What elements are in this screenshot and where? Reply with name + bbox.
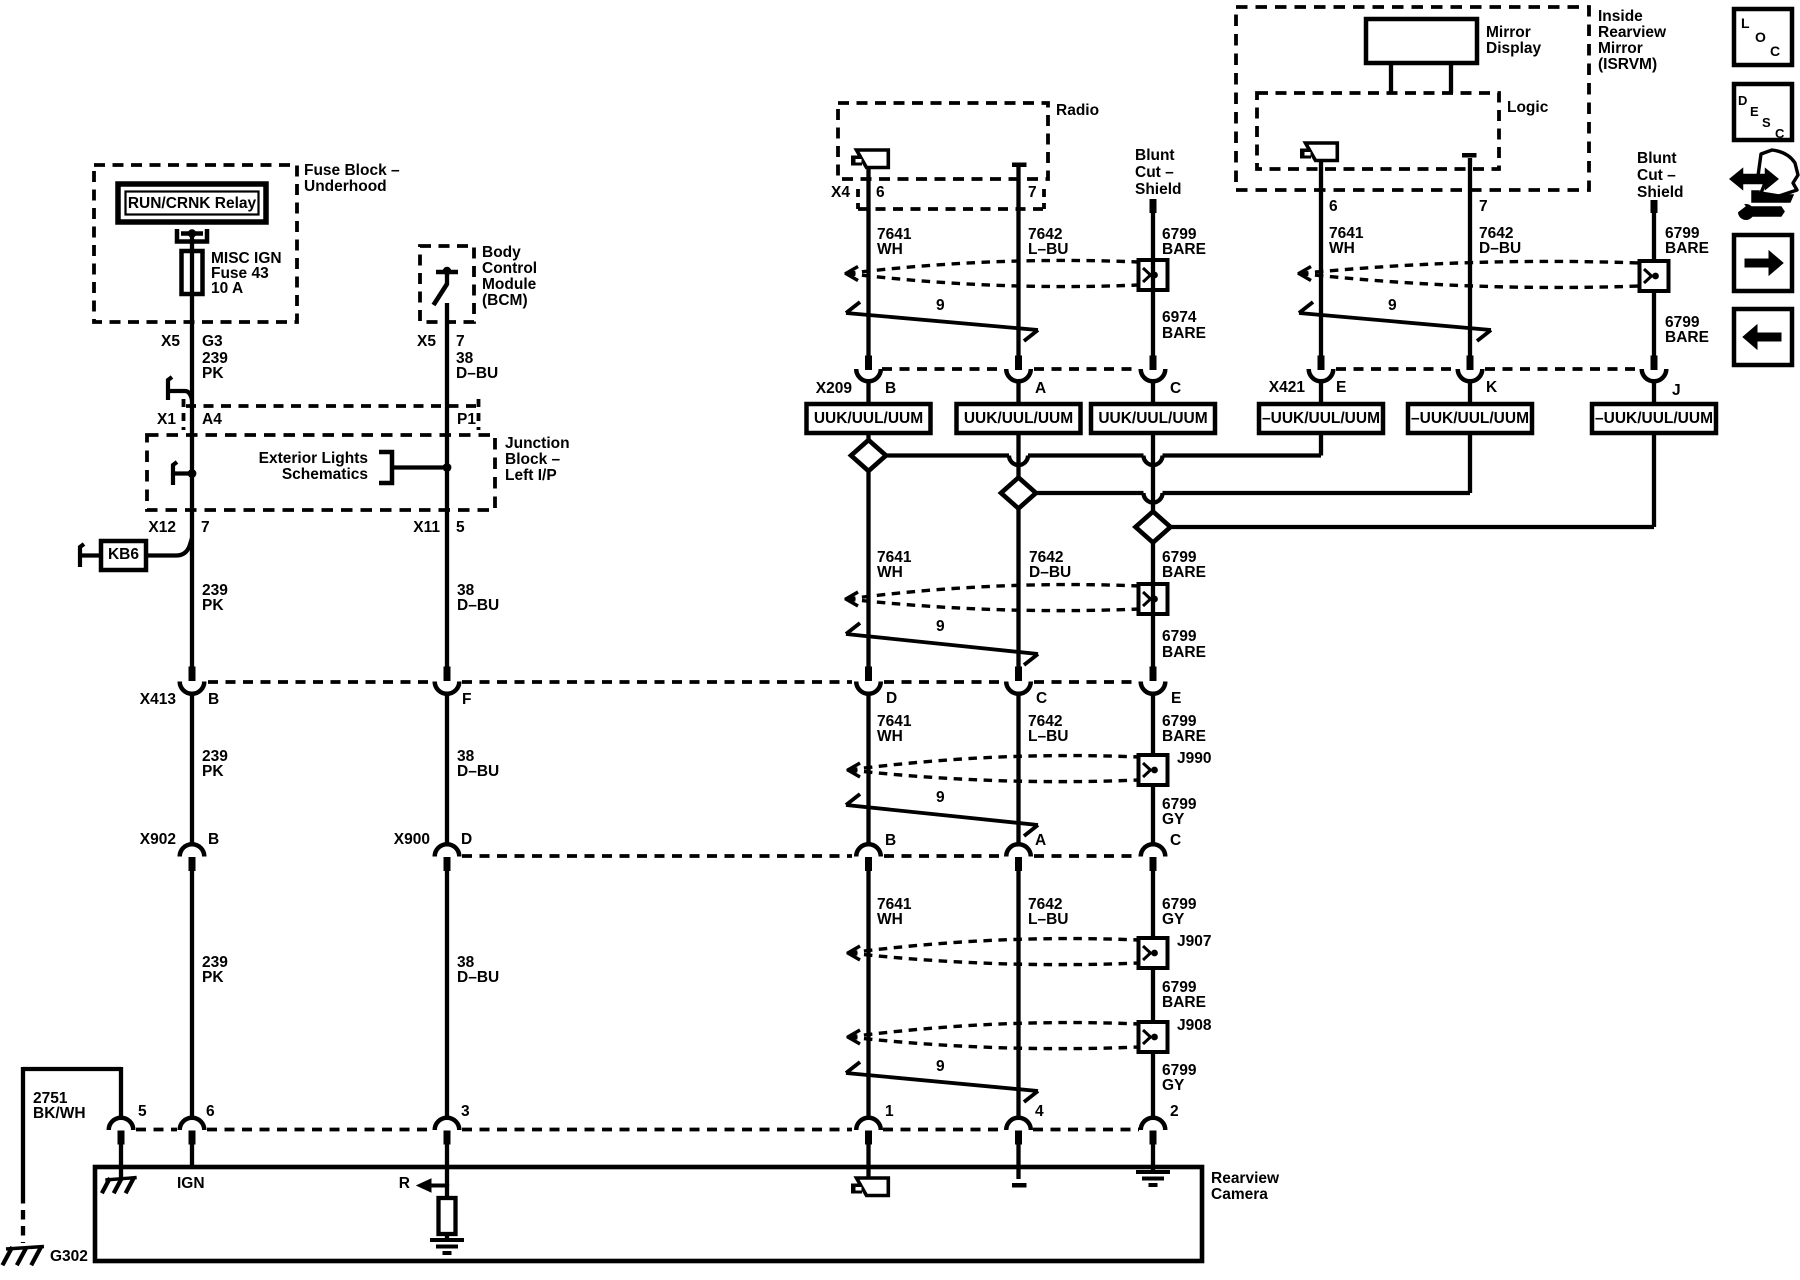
svg-text:GY: GY <box>1162 911 1185 928</box>
camera box cam icon <box>857 1178 889 1196</box>
svg-text:L–BU: L–BU <box>1028 728 1068 745</box>
KB6 arm right to line <box>146 538 192 556</box>
UUK box A <box>1016 381 1020 405</box>
svg-text:B: B <box>208 691 219 708</box>
radio dashed box <box>838 103 1048 179</box>
shield ellipse J908 <box>849 1023 1140 1037</box>
svg-text:C: C <box>1770 43 1780 59</box>
shield coupling J907 <box>1139 938 1168 968</box>
shield ellipse J907 <box>849 939 1140 953</box>
svg-text:7: 7 <box>201 519 210 536</box>
svg-text:D: D <box>886 690 897 707</box>
svg-text:L–BU: L–BU <box>1028 241 1068 258</box>
wire pin5 down <box>119 1067 123 1118</box>
camera connector dashed row <box>136 1128 177 1132</box>
svg-text:J908: J908 <box>1177 1017 1212 1034</box>
exterior lights bracket <box>379 452 392 483</box>
twisted pair 9 s3 <box>846 805 1038 825</box>
UUK box K <box>1468 381 1472 405</box>
relay pin bracket <box>177 229 207 242</box>
svg-text:4: 4 <box>1035 1103 1044 1120</box>
connector rowC B <box>856 844 881 856</box>
svg-text:X900: X900 <box>394 831 430 848</box>
svg-text:A4: A4 <box>202 411 222 428</box>
svg-text:G302: G302 <box>50 1248 88 1265</box>
svg-text:UUK/UUL/UUM: UUK/UUL/UUM <box>814 410 923 427</box>
wire pin6 to camera box <box>190 1144 194 1168</box>
wire D rowC-D <box>1016 871 1020 1118</box>
svg-text:9: 9 <box>1388 297 1397 314</box>
connector rowB E <box>1150 667 1157 682</box>
svg-text:WH: WH <box>877 241 903 258</box>
svg-text:KB6: KB6 <box>108 546 139 563</box>
wire 2751 vertical solid <box>21 1067 25 1194</box>
svg-text:Mirror: Mirror <box>1598 40 1643 57</box>
svg-text:5: 5 <box>456 519 465 536</box>
svg-text:E: E <box>1171 690 1181 707</box>
svg-text:–UUK/UUL/UUM: –UUK/UUL/UUM <box>1262 410 1380 427</box>
svg-text:E: E <box>1336 379 1346 396</box>
connector rowB D <box>865 667 872 682</box>
svg-text:6: 6 <box>1329 198 1338 215</box>
svg-text:D–BU: D–BU <box>457 969 499 986</box>
wire X902 to pin6 <box>190 871 194 1118</box>
svg-text:R: R <box>399 1175 410 1192</box>
svg-text:Left I/P: Left I/P <box>505 467 557 484</box>
horizontal diamond3 to J wire <box>1171 525 1655 529</box>
svg-text:D–BU: D–BU <box>1029 564 1071 581</box>
svg-text:WH: WH <box>877 728 903 745</box>
UUK box C <box>1151 381 1155 405</box>
splice diamond1 <box>851 440 886 471</box>
connector rowC C <box>1141 844 1166 856</box>
connector X421-E <box>1318 356 1325 371</box>
connector camera pin6 <box>180 1118 205 1130</box>
svg-text:K: K <box>1486 379 1498 396</box>
shield coupling S2 <box>1139 584 1168 614</box>
svg-text:Fuse Block –: Fuse Block – <box>304 162 400 179</box>
svg-text:Control: Control <box>482 260 537 277</box>
connector X421-K <box>1467 356 1474 371</box>
KB6 arm left <box>82 553 101 557</box>
svg-text:2: 2 <box>1170 1103 1179 1120</box>
wire R down <box>445 1184 449 1198</box>
svg-text:Blunt: Blunt <box>1637 150 1677 167</box>
ground IEC at resistor <box>430 1238 464 1242</box>
junction block dashed box <box>147 435 495 510</box>
svg-text:BARE: BARE <box>1162 241 1206 258</box>
connector X421-J <box>1651 356 1658 371</box>
twisted pair 9 s1 <box>846 313 1038 330</box>
wire 2751 horizontal <box>23 1067 121 1071</box>
svg-text:D–BU: D–BU <box>457 763 499 780</box>
svg-text:B: B <box>885 832 896 849</box>
wire shield right <box>1652 212 1656 356</box>
wire logic pin6 down <box>1319 162 1323 356</box>
svg-text:Blunt: Blunt <box>1135 147 1175 164</box>
wire pin3 to camera box <box>445 1144 449 1186</box>
svg-text:BK/WH: BK/WH <box>33 1105 86 1122</box>
wire diamond3 down <box>1151 543 1155 667</box>
connector X1-P1 dashed row <box>186 404 477 408</box>
svg-text:6: 6 <box>206 1103 215 1120</box>
horizontal diamond2 to K wire <box>1036 491 1144 495</box>
wire junction to X413 <box>190 473 194 667</box>
svg-text:X11: X11 <box>413 519 440 536</box>
connector X902-B <box>180 844 205 856</box>
hook branch in junction block <box>173 462 177 485</box>
legend DESC box <box>1734 84 1792 140</box>
svg-text:D: D <box>1738 93 1747 108</box>
svg-text:RUN/CRNK Relay: RUN/CRNK Relay <box>128 195 257 212</box>
twisted pair 9 s4 <box>846 1073 1038 1091</box>
wire C rowB-C <box>866 694 870 846</box>
svg-text:X1: X1 <box>157 411 176 428</box>
svg-text:7: 7 <box>1479 198 1488 215</box>
shield ellipse s1 <box>847 260 1139 273</box>
connector camera pin3 <box>435 1118 460 1130</box>
svg-text:PK: PK <box>202 763 224 780</box>
wire shield s1 <box>1151 212 1155 356</box>
svg-text:–UUK/UUL/UUM: –UUK/UUL/UUM <box>1411 410 1529 427</box>
svg-text:X5: X5 <box>417 333 436 350</box>
svg-text:Exterior Lights: Exterior Lights <box>259 450 368 467</box>
svg-text:Mirror: Mirror <box>1486 24 1531 41</box>
shield coupling J990 <box>1139 755 1168 785</box>
svg-text:9: 9 <box>936 618 945 635</box>
svg-text:6799: 6799 <box>1162 628 1197 645</box>
fuse F43 body <box>182 251 203 294</box>
svg-text:X4: X4 <box>831 184 850 201</box>
svg-text:D–BU: D–BU <box>456 365 498 382</box>
svg-text:X421: X421 <box>1269 379 1306 396</box>
svg-text:L: L <box>1741 15 1750 31</box>
svg-text:Rearview: Rearview <box>1598 24 1667 41</box>
wire diamond1 to X413D <box>866 471 870 667</box>
shield coupling S1 <box>1139 260 1168 290</box>
svg-text:BARE: BARE <box>1162 994 1206 1011</box>
shield stub top right <box>1651 200 1658 213</box>
connector X1 tick <box>182 399 186 430</box>
connector rowC A <box>1006 844 1031 856</box>
wire pin4 to box <box>1016 1144 1020 1179</box>
wire E rowB to J990 <box>1151 694 1155 846</box>
svg-text:GY: GY <box>1162 1077 1185 1094</box>
UUK box B <box>866 381 870 405</box>
logic minus <box>1462 153 1477 158</box>
connector X209-B <box>865 356 872 371</box>
hook branch at X1 <box>168 377 172 400</box>
R arrow <box>417 1179 431 1192</box>
shield coupling J908 <box>1139 1022 1168 1052</box>
radio cam icon <box>857 150 889 168</box>
wire pin5 to gnd <box>119 1144 123 1178</box>
svg-text:BARE: BARE <box>1162 564 1206 581</box>
svg-text:X413: X413 <box>140 691 177 708</box>
svg-text:J907: J907 <box>1177 933 1211 950</box>
svg-text:Module: Module <box>482 276 537 293</box>
connector row X421 dashed line <box>1336 367 1456 371</box>
svg-text:Block –: Block – <box>505 451 561 468</box>
ground G302 <box>6 1247 44 1250</box>
UUK box E <box>1319 381 1323 405</box>
svg-text:3: 3 <box>461 1103 470 1120</box>
svg-text:Inside: Inside <box>1598 8 1643 25</box>
svg-text:6: 6 <box>876 184 885 201</box>
connector camera pin2 <box>1141 1118 1166 1130</box>
svg-text:E: E <box>1750 104 1759 119</box>
mirror display legs <box>1389 63 1393 93</box>
horizontal diamond1 to X421E wire <box>886 453 1009 457</box>
svg-text:X209: X209 <box>816 380 853 397</box>
svg-text:Logic: Logic <box>1507 99 1549 116</box>
svg-text:UUK/UUL/UUM: UUK/UUL/UUM <box>1098 410 1207 427</box>
wire logic pin7 down <box>1468 158 1472 356</box>
ISRVM outer dashed box <box>1236 7 1589 190</box>
svg-text:BARE: BARE <box>1162 325 1206 342</box>
svg-text:WH: WH <box>877 911 903 928</box>
wire C rowC-D <box>866 871 870 1118</box>
connector camera pin1 <box>856 1118 881 1130</box>
svg-text:X12: X12 <box>148 519 176 536</box>
svg-text:9: 9 <box>936 297 945 314</box>
svg-text:C: C <box>1170 832 1181 849</box>
wire X1 to junction dot <box>190 406 194 473</box>
svg-text:(ISRVM): (ISRVM) <box>1598 56 1657 73</box>
shield ellipse s2 <box>847 585 1140 599</box>
svg-text:PK: PK <box>202 597 224 614</box>
svg-text:C: C <box>1036 690 1047 707</box>
legend right-arrow box <box>1734 235 1792 291</box>
connector X413-B <box>189 667 196 682</box>
svg-text:D–BU: D–BU <box>457 597 499 614</box>
svg-text:WH: WH <box>877 564 903 581</box>
rearview camera box <box>95 1167 1202 1261</box>
svg-text:6974: 6974 <box>1162 309 1197 326</box>
svg-text:9: 9 <box>936 789 945 806</box>
connector row X413 dashed line <box>208 680 433 684</box>
svg-text:Schematics: Schematics <box>282 466 368 483</box>
twisted pair 9 s2 <box>846 634 1038 654</box>
KB6 box <box>101 541 146 570</box>
connector camera pin5 <box>109 1118 134 1130</box>
wire E rowC to J907 <box>1151 871 1155 1118</box>
svg-text:WH: WH <box>1329 240 1355 257</box>
connector row X900 dashed line <box>462 854 852 858</box>
wire diamond2 down <box>1016 509 1020 667</box>
wire F to X900 <box>445 694 449 846</box>
svg-text:Shield: Shield <box>1135 181 1182 198</box>
svg-text:Underhood: Underhood <box>304 178 387 195</box>
svg-text:GY: GY <box>1162 811 1185 828</box>
svg-text:PK: PK <box>202 365 224 382</box>
KB6 nib flag <box>80 544 84 567</box>
svg-text:L–BU: L–BU <box>1028 911 1068 928</box>
svg-text:D–BU: D–BU <box>1479 240 1521 257</box>
svg-text:BARE: BARE <box>1665 240 1709 257</box>
connector camera pin4 <box>1006 1118 1031 1130</box>
svg-text:D: D <box>461 831 472 848</box>
connector P1 tick <box>477 399 481 430</box>
svg-text:BARE: BARE <box>1162 644 1206 661</box>
radio minus <box>1012 163 1027 168</box>
svg-text:Body: Body <box>482 244 521 261</box>
wire 2751 vertical dashed <box>21 1194 25 1243</box>
shield ellipse J990 <box>849 756 1140 770</box>
wire X413 to X902 <box>190 694 194 846</box>
wire X900 to pin3 <box>445 871 449 1118</box>
svg-text:B: B <box>208 831 219 848</box>
svg-text:F: F <box>462 691 471 708</box>
wire BCM to P1 <box>445 303 449 406</box>
wire radio pin6 down <box>866 169 870 356</box>
wire fuse to X1 <box>190 237 194 406</box>
svg-text:7: 7 <box>1028 184 1037 201</box>
svg-text:Radio: Radio <box>1056 102 1099 119</box>
svg-text:P1: P1 <box>457 411 476 428</box>
shield coupling S6 <box>1640 261 1669 291</box>
connector rowB C <box>1015 667 1022 682</box>
svg-text:J: J <box>1672 382 1681 399</box>
svg-text:Junction: Junction <box>505 435 570 452</box>
BCM switch <box>436 270 458 275</box>
svg-text:J990: J990 <box>1177 750 1211 767</box>
svg-text:O: O <box>1755 29 1766 45</box>
svg-text:Camera: Camera <box>1211 1186 1268 1203</box>
connector X413-F <box>444 667 451 682</box>
UUK box J <box>1652 381 1656 405</box>
ground at pin5 <box>105 1178 136 1181</box>
svg-text:X5: X5 <box>161 333 180 350</box>
svg-text:Display: Display <box>1486 40 1542 57</box>
svg-text:–UUK/UUL/UUM: –UUK/UUL/UUM <box>1595 410 1713 427</box>
svg-text:Cut –: Cut – <box>1637 167 1676 184</box>
wire P1 to X11 <box>445 406 449 667</box>
shield ellipse isrvm <box>1300 261 1640 273</box>
ground IEC at pin2 <box>1136 1170 1170 1174</box>
connector row X209 dashed line <box>882 367 1004 371</box>
splice diamond3 <box>1136 512 1171 543</box>
svg-text:B: B <box>885 380 896 397</box>
logic cam icon <box>1306 143 1338 161</box>
svg-text:G3: G3 <box>202 333 223 350</box>
svg-text:1: 1 <box>885 1103 894 1120</box>
svg-text:Cut –: Cut – <box>1135 164 1174 181</box>
shield stub top <box>1150 199 1157 213</box>
legend LOC box <box>1734 9 1792 65</box>
fuse block underhood dashed box <box>94 165 297 322</box>
svg-text:IGN: IGN <box>177 1175 205 1192</box>
connector X209-C <box>1150 356 1157 371</box>
splice diamond2 <box>1001 478 1036 509</box>
relay box RUN/CRNK <box>118 184 266 222</box>
wire pin2 to box <box>1151 1144 1155 1172</box>
BCM dashed box <box>420 246 474 322</box>
wire radio pin7 down <box>1016 167 1020 356</box>
wire pin1 to box <box>866 1144 870 1177</box>
twisted pair 9 isrvm <box>1299 313 1491 330</box>
wire D rowB-C <box>1016 694 1020 846</box>
connector X4 dashed bracket <box>858 207 1044 211</box>
svg-text:A: A <box>1035 380 1046 397</box>
svg-text:UUK/UUL/UUM: UUK/UUL/UUM <box>964 410 1073 427</box>
svg-text:(BCM): (BCM) <box>482 292 528 309</box>
svg-text:C: C <box>1775 126 1785 141</box>
legend left-arrow box <box>1734 309 1792 365</box>
svg-text:10 A: 10 A <box>211 280 243 297</box>
resistor in camera <box>439 1198 456 1234</box>
svg-text:C: C <box>1170 380 1181 397</box>
svg-text:A: A <box>1035 832 1046 849</box>
mirror display box <box>1366 19 1477 63</box>
svg-text:BARE: BARE <box>1162 728 1206 745</box>
svg-text:5: 5 <box>138 1103 147 1120</box>
svg-text:Rearview: Rearview <box>1211 1170 1280 1187</box>
logic dashed box <box>1257 93 1499 169</box>
camera box minus <box>1012 1183 1027 1188</box>
wire resistor to gnd <box>445 1234 449 1240</box>
svg-text:X902: X902 <box>140 831 176 848</box>
svg-text:7: 7 <box>456 333 465 350</box>
connector X900-D <box>435 844 460 856</box>
legend tools icon <box>1758 150 1798 196</box>
svg-text:Shield: Shield <box>1637 184 1684 201</box>
svg-text:S: S <box>1762 115 1771 130</box>
connector X209-A <box>1015 356 1022 371</box>
svg-text:BARE: BARE <box>1665 329 1709 346</box>
svg-text:PK: PK <box>202 969 224 986</box>
svg-text:9: 9 <box>936 1058 945 1075</box>
